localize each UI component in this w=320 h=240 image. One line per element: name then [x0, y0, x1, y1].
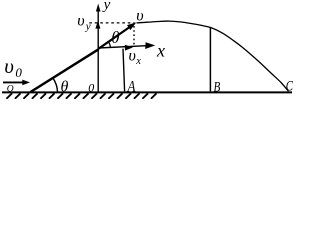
svg-text:C: C — [286, 79, 293, 95]
svg-text:B: B — [214, 80, 221, 96]
svg-text:υ: υ — [129, 48, 136, 65]
svg-text:0: 0 — [15, 65, 22, 80]
launch angle arc at origin — [108, 41, 110, 47]
svg-text:θ: θ — [61, 78, 69, 95]
vertical line at A — [123, 49, 125, 92]
incline base angle arc — [53, 78, 58, 91]
svg-text:x: x — [135, 56, 141, 67]
svg-text:0: 0 — [88, 81, 94, 95]
svg-text:υ: υ — [136, 7, 143, 24]
vertical line at B — [209, 27, 211, 91]
y-axis — [97, 7, 99, 93]
dashed horizontal line from vy to v tip — [89, 22, 134, 24]
projectile trajectory parabola — [137, 21, 289, 91]
dotted vertical from v tip to x-axis — [133, 26, 135, 47]
ground hatching — [6, 93, 156, 99]
vx component arrowhead on x-axis — [125, 45, 133, 51]
x-axis — [98, 46, 146, 48]
svg-text:υ: υ — [77, 12, 84, 29]
ground line — [2, 91, 292, 93]
incline hypotenuse — [31, 49, 99, 92]
velocity vector v — [98, 28, 129, 49]
svg-text:x: x — [156, 41, 165, 61]
svg-text:y: y — [102, 0, 111, 13]
v0 arrow — [3, 81, 24, 83]
svg-text:O: O — [7, 84, 14, 94]
svg-text:A: A — [127, 78, 136, 95]
vy component arrowhead on y-axis — [95, 21, 100, 29]
svg-text:υ: υ — [4, 54, 14, 78]
